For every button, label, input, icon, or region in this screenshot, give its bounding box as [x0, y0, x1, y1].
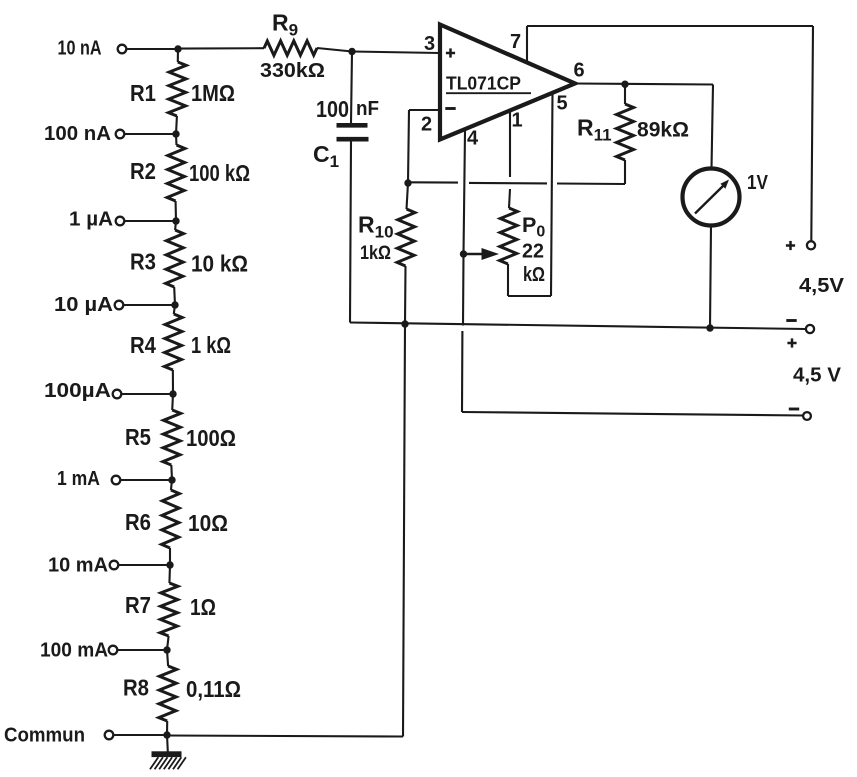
label R7 — [125, 592, 151, 618]
wire 10 µA to ladder — [123, 304, 175, 306]
svg-text:R10: R10 — [358, 212, 394, 242]
wire op-amp pin 7 — [526, 26, 528, 63]
svg-text:1 µA: 1 µA — [69, 208, 113, 231]
value 10 kΩ (R3) — [191, 251, 248, 277]
resistor R2 — [167, 134, 185, 221]
value 0,11Ω (R8) — [186, 676, 241, 702]
op-amp + input mark — [446, 48, 455, 57]
svg-text:10Ω: 10Ω — [188, 510, 228, 536]
value 22 kΩ (P0) — [522, 240, 545, 287]
svg-text:Commun: Commun — [4, 724, 85, 747]
svg-text:P0: P0 — [522, 213, 545, 241]
resistor R6 — [162, 480, 180, 565]
wire feedback (seg 2) — [469, 182, 547, 185]
value 100 nF (C1) — [316, 96, 379, 122]
node D (R10 bottom / bus / commun riser) — [401, 320, 408, 327]
terminal 100µA — [113, 390, 122, 399]
label R4 — [130, 332, 156, 358]
label R8 — [123, 675, 149, 701]
op-amp - input mark — [445, 107, 455, 110]
node 10 µA junction — [171, 301, 178, 308]
svg-text:R11: R11 — [577, 115, 612, 145]
svg-text:100µA: 100µA — [44, 379, 111, 402]
value 1Ω (R7) — [190, 594, 216, 620]
value 330kΩ (R9) — [260, 59, 325, 82]
wire commun to bus riser — [167, 736, 403, 737]
svg-text:89kΩ: 89kΩ — [637, 118, 689, 142]
value 1 kΩ (R4) — [191, 332, 231, 358]
wire op-amp pin 1 down (seg 1) — [509, 112, 511, 177]
svg-text:R2: R2 — [130, 158, 156, 184]
wire 10 nA node to R9 — [178, 47, 264, 49]
resistor R4 — [164, 305, 182, 394]
wire 10 mA to ladder — [118, 564, 170, 566]
label 100 nA — [44, 122, 111, 145]
terminal 100 nA — [116, 130, 125, 139]
pin 7 — [510, 31, 521, 53]
label R11 — [577, 115, 612, 145]
svg-text:R7: R7 — [125, 592, 151, 618]
resistor R8 — [159, 650, 177, 735]
node 100 mA junction — [163, 646, 170, 653]
pin 1 — [512, 110, 523, 132]
svg-text:3: 3 — [424, 33, 435, 55]
svg-text:C1: C1 — [313, 141, 339, 171]
wire node B to op-amp pin 3 — [352, 52, 440, 54]
svg-text:5: 5 — [557, 93, 568, 115]
resistor R11 — [617, 85, 634, 185]
svg-text:1kΩ: 1kΩ — [360, 242, 391, 264]
label − (battery2) — [789, 408, 799, 411]
label 4,5 V (battery2) — [793, 364, 841, 387]
svg-text:100 kΩ: 100 kΩ — [189, 160, 250, 186]
label 4,5V (battery1) — [799, 274, 844, 297]
label + (battery2) — [787, 338, 796, 347]
node B (pin3 / C1 top) — [348, 48, 355, 55]
node A (pin3 net / 10 nA input) — [174, 45, 181, 52]
op-amp U1 TL071CP — [440, 25, 575, 140]
svg-text:R6: R6 — [125, 509, 151, 535]
terminal 1 µA — [116, 217, 125, 226]
label R5 — [125, 424, 151, 450]
wire R9 to node B — [317, 48, 352, 52]
wire commun node to ground — [166, 735, 169, 752]
svg-text:4,5 V: 4,5 V — [793, 364, 841, 387]
svg-text:0,11Ω: 0,11Ω — [186, 676, 241, 702]
label 100µA — [44, 379, 111, 402]
svg-text:TL071CP: TL071CP — [446, 74, 521, 94]
wire op-amp pin 5 — [551, 93, 553, 296]
svg-text:1 kΩ: 1 kΩ — [191, 332, 231, 358]
wire 100 nA to ladder — [124, 133, 176, 135]
terminal battery1 − / battery2 + — [806, 325, 814, 333]
svg-text:6: 6 — [574, 60, 585, 82]
label − (battery1) — [786, 319, 796, 322]
wire pin4 below bus to battery2 — [461, 331, 463, 412]
terminal battery1 + — [807, 241, 815, 249]
label R1 — [130, 80, 156, 106]
svg-text:100 mA: 100 mA — [40, 639, 108, 662]
wire output to meter — [712, 85, 714, 169]
node E (pin6 / R11 top) — [621, 81, 628, 88]
node Commun junction — [163, 731, 170, 738]
pin 6 — [574, 60, 585, 82]
terminal 1 mA — [112, 476, 121, 485]
label + (battery1) — [786, 241, 795, 250]
label 10 mA — [48, 554, 108, 577]
wire feedback pin2 to R11 (seg 1) — [409, 181, 458, 183]
svg-text:R8: R8 — [123, 675, 149, 701]
svg-text:10 µA: 10 µA — [54, 293, 113, 316]
wire mid bus (battery junction) — [350, 323, 806, 330]
svg-text:100 nA: 100 nA — [44, 122, 111, 145]
wire 100 mA to ladder — [117, 649, 167, 651]
label R10 — [358, 212, 394, 242]
wiper arrow (P0 to pin4) — [464, 248, 500, 260]
label 1 mA — [57, 467, 100, 490]
label 1 µA — [69, 208, 113, 231]
label R6 — [125, 509, 151, 535]
wire op-amp pin 4 down — [464, 131, 466, 254]
label 100 mA — [40, 639, 108, 662]
node 1 µA junction — [172, 217, 179, 224]
node 10 mA junction — [166, 561, 173, 568]
resistor R5 — [163, 394, 181, 480]
node C (pin2 / R10 / feedback) — [404, 179, 411, 186]
capacitor C1 — [337, 52, 369, 323]
pin 4 — [467, 128, 479, 150]
svg-text:22: 22 — [522, 240, 544, 263]
wire feedback (seg 3) — [557, 182, 625, 185]
node 100µA junction — [169, 390, 176, 397]
svg-text:100Ω: 100Ω — [186, 425, 236, 451]
svg-text:4: 4 — [467, 128, 479, 150]
node 100 nA junction — [172, 130, 179, 137]
svg-text:R4: R4 — [130, 332, 156, 358]
label 10 µA — [54, 293, 113, 316]
resistor R10 — [397, 183, 415, 324]
ground — [150, 751, 186, 769]
wire battery2 − run — [462, 412, 803, 416]
wire top run pin7 to battery1 + — [527, 26, 813, 241]
svg-text:10 kΩ: 10 kΩ — [191, 251, 248, 277]
svg-text:7: 7 — [510, 31, 521, 53]
terminal 10 µA — [115, 301, 124, 310]
svg-text:1V: 1V — [747, 171, 768, 194]
svg-text:kΩ: kΩ — [523, 263, 545, 286]
terminal 100 mA — [109, 646, 118, 655]
resistor R7 — [160, 565, 178, 650]
svg-text:10 mA: 10 mA — [48, 554, 108, 577]
svg-text:1Ω: 1Ω — [190, 594, 216, 620]
value 10Ω (R6) — [188, 510, 228, 536]
svg-text:4,5V: 4,5V — [799, 274, 844, 297]
node G (pin4 / wiper) — [460, 250, 467, 257]
wire 1 mA to ladder — [120, 479, 172, 481]
svg-text:1: 1 — [512, 110, 523, 132]
wire pin4 to bus crossing — [462, 254, 465, 326]
terminal 10 nA — [118, 45, 127, 54]
wire Commun to ladder — [113, 734, 167, 736]
resistor R3 — [166, 221, 184, 305]
wire 100µA to ladder — [121, 393, 173, 395]
svg-text:100: 100 — [316, 96, 349, 122]
svg-text:1MΩ: 1MΩ — [191, 80, 235, 106]
wire op-amp pin 2 — [408, 110, 440, 183]
svg-text:R1: R1 — [130, 80, 156, 106]
terminal 10 mA — [110, 561, 119, 570]
label P0 — [522, 213, 545, 241]
label TL071CP — [446, 74, 531, 94]
value 1kΩ (R10) — [360, 242, 391, 264]
potentiometer P0 — [500, 208, 518, 296]
label 10 nA — [58, 36, 102, 59]
label R3 — [130, 249, 156, 275]
value 100 kΩ (R2) — [189, 160, 250, 186]
svg-text:2: 2 — [421, 114, 432, 136]
label R9 — [272, 10, 298, 40]
svg-text:R9: R9 — [272, 10, 298, 40]
svg-text:1 mA: 1 mA — [57, 467, 100, 490]
terminal battery2 − — [803, 412, 811, 420]
wire op-amp output pin6 — [575, 84, 713, 85]
terminal Commun — [105, 731, 114, 740]
wire meter to bus — [710, 226, 711, 329]
resistor R1 — [169, 49, 187, 134]
node F (meter / battery junction) — [706, 324, 713, 331]
value 1MΩ (R1) — [191, 80, 235, 106]
svg-text:nF: nF — [356, 98, 379, 120]
wire P0 bottom to pin 5 — [508, 295, 551, 297]
node 1 mA junction — [168, 476, 175, 483]
label R2 — [130, 158, 156, 184]
meter M1 1V — [683, 169, 740, 226]
svg-text:R5: R5 — [125, 424, 151, 450]
resistor R9 — [264, 41, 317, 56]
wire 10 nA to ladder — [126, 48, 178, 50]
value 100Ω (R5) — [186, 425, 236, 451]
wire op-amp pin 1 down (seg 2) — [509, 189, 510, 208]
svg-text:R3: R3 — [130, 249, 156, 275]
label C1 — [313, 141, 339, 171]
value 1V (meter) — [747, 171, 768, 194]
value 89kΩ (R11) — [637, 118, 689, 142]
wire bus riser to commun — [403, 324, 405, 737]
pin 3 — [424, 33, 435, 55]
label Commun — [4, 724, 85, 747]
pin 5 — [557, 93, 568, 115]
svg-text:330kΩ: 330kΩ — [260, 59, 325, 82]
wire 1 µA to ladder — [124, 220, 176, 222]
pin 2 — [421, 114, 432, 136]
svg-text:10 nA: 10 nA — [58, 36, 102, 59]
